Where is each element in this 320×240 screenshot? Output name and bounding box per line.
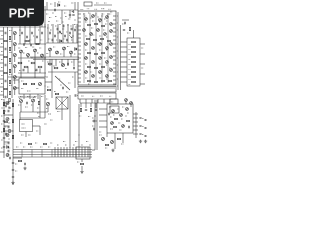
wire [99, 114, 107, 116]
capacitor C45 [94, 120, 95, 122]
value label [22, 123, 25, 125]
resistor R37 [95, 81, 98, 82]
capacitor C5 [5, 48, 6, 50]
value label [109, 106, 111, 108]
value label [57, 32, 59, 34]
value label [129, 83, 131, 85]
resistor R5 [9, 36, 10, 39]
wire [90, 103, 92, 107]
value label [55, 16, 57, 18]
wire [107, 13, 109, 83]
value label [92, 34, 94, 36]
wire [0, 86, 4, 88]
transistor Q7 [20, 50, 23, 53]
wire [61, 59, 63, 66]
capacitor C12 [37, 36, 38, 38]
capacitor C39 [139, 118, 141, 119]
capacitor C41 [139, 134, 141, 135]
wire [81, 166, 83, 170]
value label [21, 80, 23, 82]
transistor Q49 [102, 138, 105, 141]
wire [52, 24, 54, 43]
value label [127, 112, 129, 114]
transistor Q57 [6, 154, 9, 157]
svg-text:PDF: PDF [9, 5, 35, 20]
capacitor C7 [5, 80, 6, 82]
wire [44, 6, 46, 27]
value label [57, 111, 60, 113]
transistor Q53 [46, 102, 49, 105]
wire [109, 99, 111, 103]
block U7 regulator [20, 120, 33, 132]
value label [91, 27, 93, 29]
capacitor C38 [109, 113, 110, 115]
value label [89, 144, 91, 146]
value label [129, 63, 131, 65]
capacitor C32 [75, 94, 76, 96]
capacitor C35 [85, 110, 87, 111]
wire [83, 13, 85, 83]
value label [19, 29, 21, 31]
wire [14, 90, 16, 96]
capacitor C55 [10, 157, 11, 159]
wire [121, 56, 128, 58]
wire [39, 95, 41, 118]
value label [55, 25, 57, 27]
capacitor C29 [68, 63, 69, 65]
wire [114, 133, 116, 149]
value label [5, 126, 7, 128]
value label [109, 13, 111, 15]
resistor R14 [24, 66, 28, 68]
wire [99, 120, 107, 122]
resistor R44 [132, 56, 136, 57]
resistor R15 [31, 62, 35, 64]
value label [34, 96, 36, 98]
wire [25, 132, 27, 138]
value label [105, 147, 107, 149]
resistor R2 [4, 56, 7, 57]
wire [20, 117, 45, 119]
connector pin tick [91, 87, 93, 90]
wire [57, 24, 59, 43]
pin 4 [78, 25, 81, 27]
capacitor C36 [95, 110, 97, 111]
value label [104, 2, 106, 4]
resistor R33 [88, 66, 91, 67]
pin 31 [113, 59, 116, 61]
resistor R27 [94, 39, 97, 40]
value label [58, 78, 60, 80]
value label [29, 39, 31, 41]
wire [0, 38, 4, 40]
value label [30, 146, 32, 148]
wire [48, 71, 78, 73]
pin 15 [78, 69, 81, 71]
wire [4, 114, 13, 116]
wire [99, 126, 107, 128]
capacitor C43 [145, 127, 147, 130]
value label [100, 84, 102, 86]
value label [68, 18, 70, 20]
wire [140, 43, 145, 45]
connector CN1 ruler row [78, 87, 116, 93]
pin 13 [78, 61, 81, 63]
connector CN2 label row [78, 93, 116, 99]
transistor Q20 [106, 16, 109, 19]
resistor R56 [117, 138, 120, 139]
pin 10 [78, 49, 81, 51]
value label [19, 98, 21, 100]
capacitor C1 [55, 9, 56, 11]
pin 37 [113, 83, 116, 85]
value label [92, 62, 94, 64]
resistor R59 [12, 119, 13, 122]
value label [8, 147, 10, 149]
wire [0, 26, 46, 28]
value label [8, 154, 10, 156]
wire [117, 71, 118, 73]
pin 24 [113, 31, 116, 33]
resistor R46 [132, 66, 136, 67]
value label [99, 134, 102, 136]
value label [37, 107, 39, 109]
resistor R9 [9, 80, 10, 83]
transistor Q34 [99, 57, 102, 60]
wire [62, 24, 64, 43]
wire [97, 99, 99, 103]
bus wire [13, 151, 92, 153]
capacitor C30 [74, 67, 75, 69]
wire [51, 59, 53, 98]
value label [31, 104, 33, 106]
value label [65, 68, 67, 70]
value label [56, 39, 58, 41]
schematic page [0, 0, 149, 198]
bus junction [87, 147, 89, 157]
resistor R20 [54, 67, 58, 69]
value label [27, 96, 29, 98]
transistor Q39 [99, 71, 102, 74]
value label [1, 67, 3, 69]
wire [18, 57, 46, 59]
value label [97, 16, 99, 18]
transistor Q11 [39, 83, 42, 86]
value label [70, 25, 72, 27]
transistor Q19 [99, 19, 102, 22]
wire [34, 24, 36, 44]
wire [18, 43, 46, 45]
value label [98, 18, 100, 20]
value label [141, 47, 143, 49]
value label [5, 101, 7, 103]
transistor Q54 [6, 102, 9, 105]
bus junction [57, 147, 59, 157]
connector pin tick [89, 87, 91, 90]
wire [76, 24, 78, 43]
transistor Q16 [62, 64, 65, 67]
value label [8, 114, 10, 116]
value label [110, 116, 112, 118]
value label [35, 70, 37, 72]
wire [140, 73, 145, 75]
value label [100, 95, 103, 97]
wire [121, 51, 128, 53]
value label [142, 134, 144, 136]
diode D2 [60, 40, 62, 43]
diode D3 [75, 48, 77, 51]
wire [24, 24, 26, 44]
value label [21, 134, 23, 136]
wire [47, 106, 49, 112]
capacitor C59 [12, 163, 14, 164]
bus junction [78, 147, 80, 157]
value label [109, 95, 111, 97]
capacitor C47 [27, 102, 28, 104]
value label [85, 77, 87, 79]
filter block U8 [76, 147, 90, 159]
value label [92, 117, 94, 119]
pin 7 [78, 37, 81, 39]
wire [44, 24, 46, 44]
value label [129, 68, 131, 70]
value label [56, 20, 58, 22]
resistor R60 [12, 135, 13, 138]
value label [99, 131, 101, 133]
wire [13, 157, 22, 159]
resistor R54 [114, 126, 117, 127]
wire [55, 59, 57, 66]
value label [106, 49, 108, 51]
wire [117, 57, 118, 59]
value label [99, 35, 101, 37]
resistor R18 [31, 83, 34, 84]
value label [73, 144, 75, 146]
pin 16 [78, 73, 81, 75]
value label [110, 128, 113, 130]
wire [33, 58, 79, 60]
connector pin tick [87, 87, 89, 90]
value label [33, 35, 35, 37]
bus junction [81, 147, 83, 157]
resistor R53 [127, 120, 130, 121]
wire [133, 117, 138, 119]
wire [7, 27, 9, 98]
pin 22 [113, 23, 116, 25]
value label [92, 125, 94, 127]
wire [92, 149, 95, 151]
wire [41, 57, 43, 58]
transistor Q24 [97, 29, 100, 32]
value label [48, 21, 50, 23]
pin 9 [78, 45, 81, 47]
value label [86, 141, 88, 143]
resistor R30 [88, 52, 91, 53]
capacitor C31 [63, 87, 64, 89]
value label [97, 43, 99, 45]
value label [109, 67, 111, 69]
value label [117, 108, 119, 110]
wire [13, 79, 19, 81]
transistor Q45 [111, 122, 114, 125]
wire [80, 102, 110, 104]
resistor R34 [95, 67, 98, 68]
capacitor C50 [8, 142, 9, 144]
wire [103, 99, 105, 103]
capacitor C6 [5, 64, 6, 66]
value label [31, 57, 33, 59]
capacitor C56 [8, 108, 10, 109]
value label [1, 51, 3, 53]
resistor R28 [101, 38, 104, 39]
wire [133, 30, 135, 38]
resistor R55 [105, 144, 108, 145]
value label [64, 5, 66, 7]
wire [140, 53, 145, 55]
value label [36, 88, 38, 90]
value label [84, 15, 86, 17]
capacitor C21 [65, 35, 66, 37]
resistor R21 [47, 89, 50, 90]
transistor Q35 [106, 61, 109, 64]
wire [0, 94, 4, 96]
value label [1, 147, 3, 149]
capacitor C18 [50, 32, 51, 34]
wire [125, 101, 127, 104]
wire [133, 133, 138, 135]
resistor R23 [88, 24, 91, 25]
value label [106, 36, 108, 38]
resistor R51 [90, 108, 91, 111]
transformer T1 [56, 97, 68, 109]
wire [27, 57, 29, 59]
value label [54, 91, 56, 93]
value label [84, 18, 86, 20]
capacitor C13 [42, 32, 43, 34]
bus junction [60, 147, 62, 157]
resistor R57 [38, 101, 39, 104]
connector pin tick [93, 87, 95, 90]
pin 17 [78, 77, 81, 79]
pin 12 [78, 57, 81, 59]
wire [73, 10, 75, 13]
value label [74, 53, 76, 55]
pin 34 [113, 71, 116, 73]
wire [20, 58, 22, 78]
connector pin tick [97, 87, 99, 90]
wire [23, 94, 25, 99]
value label [41, 96, 43, 98]
transistor Q50 [111, 141, 114, 144]
ground [111, 149, 114, 152]
wire [95, 120, 97, 122]
IC U6 chroma block [107, 104, 133, 133]
connector pin tick [101, 87, 103, 90]
value label [95, 14, 97, 16]
wire [121, 66, 128, 68]
signal arrow [59, 31, 62, 34]
value label [23, 52, 25, 54]
connector pin tick [79, 87, 81, 90]
wire [27, 67, 29, 74]
value label [25, 106, 28, 108]
capacitor C37 [129, 126, 130, 128]
value label [51, 24, 53, 26]
connector pin tick [113, 87, 115, 90]
value label [66, 31, 68, 33]
pin 2 [78, 17, 81, 19]
wire [14, 35, 16, 41]
block U2 tiny [84, 2, 92, 6]
wire [85, 103, 87, 108]
value label [40, 146, 42, 148]
wire [85, 99, 87, 103]
value label [87, 8, 90, 10]
value label [113, 114, 115, 116]
resistor R19 [48, 63, 52, 65]
value label [60, 53, 62, 55]
value label [49, 17, 51, 19]
value label [44, 123, 47, 125]
value label [68, 82, 70, 84]
wire [45, 81, 52, 83]
resistor R1 [4, 40, 7, 41]
transistor Q36 [110, 56, 113, 59]
value label [53, 46, 55, 48]
capacitor C16 [23, 69, 24, 71]
value label [48, 146, 50, 148]
resistor R16 [38, 66, 42, 68]
value label [88, 83, 90, 85]
wire [101, 13, 103, 83]
wire [95, 103, 97, 108]
pin 36 [113, 79, 116, 81]
value label [67, 46, 69, 48]
value label [9, 63, 11, 65]
wire [61, 10, 63, 24]
value label [92, 20, 94, 22]
resistor R6 [9, 47, 10, 50]
capacitor C3 [72, 15, 74, 16]
pin 6 [78, 33, 81, 35]
ground [144, 140, 147, 143]
bus junction [69, 147, 71, 157]
transistor Q30 [106, 47, 109, 50]
transistor Q23 [90, 33, 93, 36]
wire [14, 57, 16, 63]
bus junction [54, 147, 56, 157]
resistor R32 [102, 52, 105, 53]
transistor Q41 [110, 69, 113, 72]
wire [41, 20, 43, 27]
capacitor C4 [5, 32, 6, 34]
value label [92, 48, 94, 50]
value label [106, 78, 108, 80]
value label [129, 53, 131, 55]
wire [67, 59, 69, 66]
value label [101, 15, 103, 17]
node N1 [19, 82, 20, 83]
wire [69, 95, 71, 148]
pin 30 [113, 55, 116, 57]
value label [22, 127, 26, 129]
capacitor C26 [57, 28, 58, 30]
pin 28 [113, 47, 116, 49]
wire [46, 42, 78, 44]
value label [129, 73, 131, 75]
wire [133, 121, 138, 123]
wire [122, 133, 124, 143]
